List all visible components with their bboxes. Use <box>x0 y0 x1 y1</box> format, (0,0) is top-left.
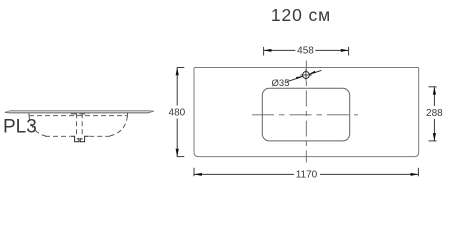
svg-text:288: 288 <box>426 108 443 119</box>
svg-text:1170: 1170 <box>296 170 318 181</box>
svg-text:480: 480 <box>169 108 186 119</box>
svg-text:Ø35: Ø35 <box>272 78 290 89</box>
svg-text:458: 458 <box>297 46 314 57</box>
svg-text:120 см: 120 см <box>271 5 331 25</box>
svg-text:PL3: PL3 <box>3 117 37 138</box>
